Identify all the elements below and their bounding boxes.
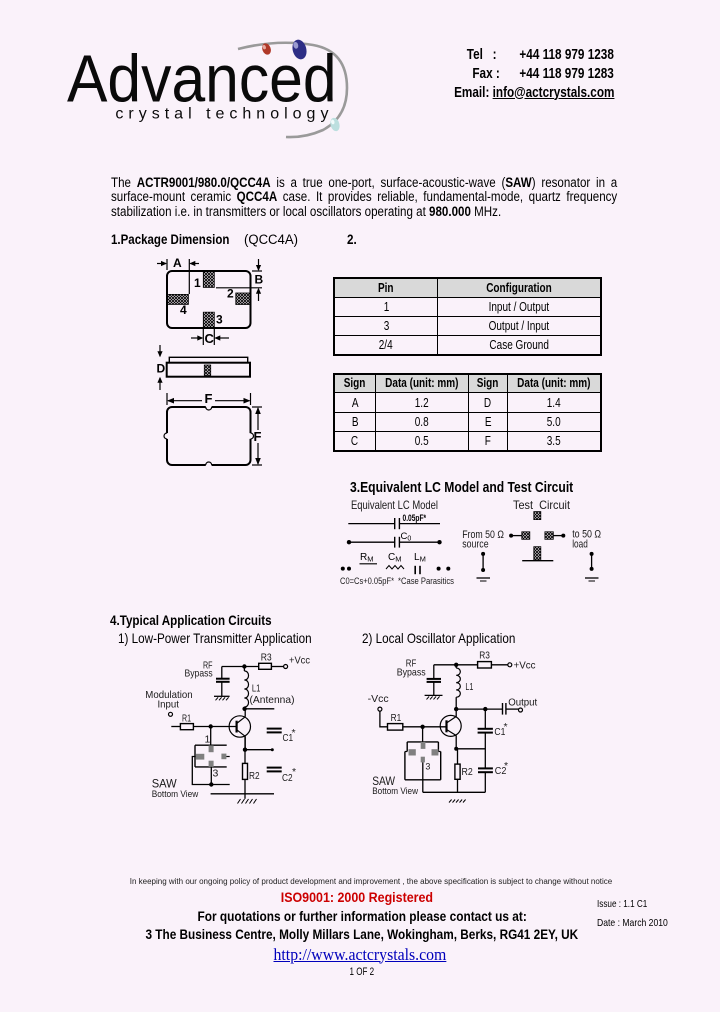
svg-text:3: 3: [425, 762, 430, 772]
SAW package outline (bottom view): [405, 742, 441, 780]
pin label 3: [425, 762, 430, 772]
pin label 1: [194, 276, 201, 290]
resistor R1: [180, 713, 193, 730]
svg-text:R1: R1: [391, 712, 402, 724]
SAW case ground line: [522, 560, 553, 562]
label to 50 ohm load: [572, 529, 601, 551]
resistor R3: [478, 650, 492, 669]
resistor RM label: [360, 552, 378, 564]
label +Vcc: [289, 655, 310, 667]
wire to output capacitor: [485, 708, 502, 710]
note C0=Cs+0.05pF: [340, 576, 394, 586]
wire SAW pin 3 down: [210, 767, 212, 785]
svg-text:LM: LM: [414, 552, 426, 564]
transistor Q1: [440, 709, 461, 749]
svg-text:1: 1: [205, 734, 211, 746]
svg-text:F: F: [205, 391, 213, 406]
svg-text:*: *: [504, 760, 508, 772]
inductor L1: [244, 667, 294, 709]
inductor LM label: [414, 552, 426, 574]
package side view lid: [169, 357, 247, 362]
wire base to SAW pin 1: [210, 727, 212, 746]
svg-text:RM: RM: [360, 552, 373, 564]
dimension D (arrows): [157, 345, 166, 390]
label SAW Bottom View: [372, 776, 418, 797]
node collector junction: [242, 707, 246, 711]
SECTION 3 HEADING: [350, 480, 619, 496]
svg-text:C0=Cs+0.05pF*: C0=Cs+0.05pF*: [340, 576, 394, 586]
wire C1/C2 vertical rail: [484, 709, 486, 792]
label +Vcc: [514, 660, 536, 672]
TABLE 1: pin configuration: [333, 277, 602, 356]
SAW device pad left: [522, 532, 530, 540]
wire R3 to Vcc terminal: [271, 666, 283, 668]
svg-text:*Case Parasitics: *Case Parasitics: [398, 576, 454, 586]
svg-text:CM: CM: [388, 552, 401, 564]
wire R3 to Vcc terminal: [491, 664, 507, 666]
resistor R2: [455, 764, 473, 779]
TABLE 2: dimensions: [333, 373, 602, 452]
svg-text:Bypass: Bypass: [397, 666, 426, 678]
wire collector tap to C1: [245, 708, 275, 710]
label -Vcc: [368, 693, 389, 705]
SAW pad 1 (top): [209, 745, 214, 752]
package bottom view body: [164, 404, 254, 468]
dimension F horizontal (width): [167, 391, 251, 406]
svg-text:*: *: [292, 727, 296, 739]
svg-text:Equivalent LC Model: Equivalent LC Model: [351, 498, 438, 512]
svg-text:Output: Output: [508, 697, 537, 709]
svg-text:C0: C0: [401, 531, 412, 543]
ground (load): [585, 578, 599, 581]
pad 4 (top view): [167, 294, 189, 304]
svg-text:source: source: [462, 539, 488, 551]
logo word Advanced: [67, 40, 337, 115]
SAW pad right: [432, 749, 439, 755]
inductor L1: [456, 665, 473, 697]
label Output: [508, 697, 537, 709]
ground (source): [477, 578, 491, 581]
CIRCUIT 2: [360, 648, 545, 810]
wire ground rail: [423, 791, 486, 793]
dimension F vertical (height): [252, 407, 262, 465]
node collector junction: [454, 707, 458, 711]
transistor Q1: [229, 709, 250, 750]
wire SAW case to node: [192, 757, 229, 785]
SAW device pad right: [545, 532, 553, 540]
pin label 4: [180, 303, 187, 317]
logo cyan bead: [329, 117, 341, 132]
capacitor CM label: [386, 552, 404, 569]
pin label 3: [213, 768, 219, 780]
SAW pad top: [421, 742, 426, 749]
wire collector rail: [456, 708, 485, 710]
svg-text:R3: R3: [261, 652, 272, 664]
label RF Bypass: [185, 660, 213, 680]
package side view body: [167, 363, 250, 377]
node base junction: [209, 724, 213, 728]
svg-text:R1: R1: [182, 713, 191, 725]
side view pad: [204, 365, 210, 376]
capacitor C1: [478, 721, 508, 738]
svg-text:-Vcc: -Vcc: [368, 693, 389, 705]
logo blue bead: [290, 38, 308, 61]
resistor R2: [243, 763, 260, 782]
wire middle rail right with node dot: [399, 540, 441, 544]
svg-text:crystal technology: crystal technology: [115, 106, 333, 123]
SAW pad left: [409, 749, 416, 755]
load ground branch: [590, 552, 594, 571]
INTRO PARAGRAPH: [111, 176, 617, 220]
SAW pad 3 (bottom): [209, 761, 214, 767]
logo word crystal technology: [115, 106, 333, 123]
pad 3 (top view): [203, 312, 214, 328]
Vcc terminal: [508, 663, 512, 667]
modulation input terminal: [169, 712, 173, 716]
capacitor C0 plates: [395, 537, 400, 548]
svg-text:C: C: [205, 331, 215, 346]
svg-text:R2: R2: [462, 766, 473, 778]
wire R1 to base: [193, 726, 236, 728]
SECTION 4 HEADING: [110, 613, 307, 629]
wire SAW pin to ground rail: [422, 762, 424, 792]
SAW package outline (bottom view): [195, 745, 227, 767]
wire Vcc rail: [434, 664, 478, 666]
svg-text:2: 2: [227, 287, 234, 301]
output terminal: [519, 708, 523, 712]
SAW device pad top: [534, 512, 541, 520]
capacitor C2: [478, 760, 508, 777]
SECTION 1 HEADING: [111, 232, 249, 247]
ground (main): [449, 800, 466, 803]
svg-text:A: A: [173, 256, 182, 270]
node C1 junction: [483, 707, 487, 711]
wire middle rail left with node dot: [347, 540, 395, 544]
svg-text:Bottom View: Bottom View: [152, 789, 199, 800]
svg-text:load: load: [572, 539, 588, 551]
PACKAGE DRAWING: [140, 250, 325, 475]
SAW pad right with stub: [221, 754, 229, 760]
wire terminal to R1: [380, 711, 388, 727]
wire from SAW to load: [553, 534, 565, 538]
source ground branch: [481, 552, 485, 572]
svg-text:*: *: [504, 721, 508, 733]
svg-text:F: F: [254, 429, 262, 444]
svg-text:R3: R3: [479, 650, 490, 662]
node emitter junction: [243, 748, 247, 752]
wire emitter rail: [454, 747, 485, 751]
wire emitter tap: [245, 748, 274, 751]
logo red bead: [261, 42, 273, 56]
wire top rail right: [399, 523, 440, 525]
svg-text:Test Circuit: Test Circuit: [513, 498, 571, 512]
LC MODEL + TEST CIRCUIT: [336, 495, 640, 600]
wire emitter down: [244, 736, 246, 794]
wire Vcc rail: [222, 666, 259, 668]
wire R2 branch top: [457, 749, 459, 764]
wire from source to SAW: [509, 534, 522, 538]
svg-text:D: D: [157, 362, 166, 376]
wire R1 to base: [403, 726, 447, 728]
node SAW output junction: [209, 782, 213, 786]
svg-text:*: *: [292, 766, 296, 778]
pad 2 (top view): [236, 293, 250, 305]
svg-text:Bypass: Bypass: [185, 668, 213, 680]
pin label 2: [227, 287, 234, 301]
wire base to SAW: [422, 727, 424, 742]
Vcc input terminal: [378, 707, 382, 711]
SAW pad center: [421, 757, 425, 763]
pin label 1: [205, 734, 211, 746]
svg-text:0.05pF*: 0.05pF*: [403, 513, 427, 523]
FOOTER: [11, 877, 720, 886]
label RF Bypass: [397, 658, 426, 679]
capacitor RF bypass: [427, 665, 441, 696]
svg-text:R2: R2: [249, 770, 260, 782]
capacitor RF bypass: [216, 667, 230, 697]
node base junction: [420, 725, 424, 729]
svg-text:4: 4: [180, 303, 187, 317]
resistor R3: [259, 652, 272, 670]
CONTACT BLOCK: [414, 46, 614, 103]
wire capacitor to output terminal: [506, 708, 519, 710]
capacitor C2: [267, 766, 296, 784]
pin label 3: [216, 313, 223, 327]
capacitor C0 label: [401, 531, 412, 543]
node L1/Vcc junction: [454, 663, 458, 667]
capacitor output coupling: [503, 703, 506, 715]
label Equivalent LC Model: [351, 498, 438, 512]
wire ground rail: [211, 793, 274, 795]
svg-text:L1: L1: [465, 681, 473, 693]
SAW device pad bottom: [534, 547, 541, 560]
ground (main): [238, 794, 257, 804]
wire input to R1: [171, 726, 180, 728]
label From 50 ohm source: [462, 529, 504, 551]
dimension B (extension lines and arrows): [216, 259, 264, 301]
svg-text:+Vcc: +Vcc: [514, 660, 536, 672]
note Case Parasitics: [398, 576, 454, 586]
wire top rail left: [348, 523, 394, 525]
dimension C (extension lines and arrows): [191, 329, 229, 346]
package top view body: [167, 271, 251, 328]
label Test Circuit: [513, 498, 571, 512]
label SAW Bottom View: [152, 779, 199, 801]
svg-text:3: 3: [216, 313, 223, 327]
svg-text:Bottom View: Bottom View: [372, 786, 418, 797]
svg-text:B: B: [255, 273, 264, 287]
capacitor C1: [267, 727, 296, 744]
dimension A (extension lines and arrows): [157, 256, 199, 294]
svg-text:+Vcc: +Vcc: [289, 655, 310, 667]
label Modulation Input: [145, 689, 192, 710]
resistor R1: [388, 712, 403, 730]
svg-text:1: 1: [194, 276, 201, 290]
pad 1 (top view): [203, 270, 214, 287]
CIRCUIT 1: [110, 648, 325, 810]
Vcc terminal: [284, 665, 288, 669]
node collector/Vcc junction: [242, 664, 246, 668]
wire R2 branch bottom: [457, 779, 459, 792]
ground (bypass): [214, 696, 230, 700]
svg-text:L1: L1: [252, 683, 261, 695]
LOGO: [55, 35, 355, 140]
wire L1 to collector node: [455, 697, 457, 709]
svg-text:3: 3: [213, 768, 219, 780]
ground (bypass): [425, 695, 443, 699]
SAW pad left: [196, 754, 205, 760]
motional branch node dots: [341, 567, 451, 571]
svg-text:Input: Input: [158, 698, 179, 710]
svg-text:(Antenna): (Antenna): [250, 694, 295, 706]
logo swoosh arc: [238, 43, 347, 137]
capacitor 0.05pF (package): [395, 513, 427, 529]
